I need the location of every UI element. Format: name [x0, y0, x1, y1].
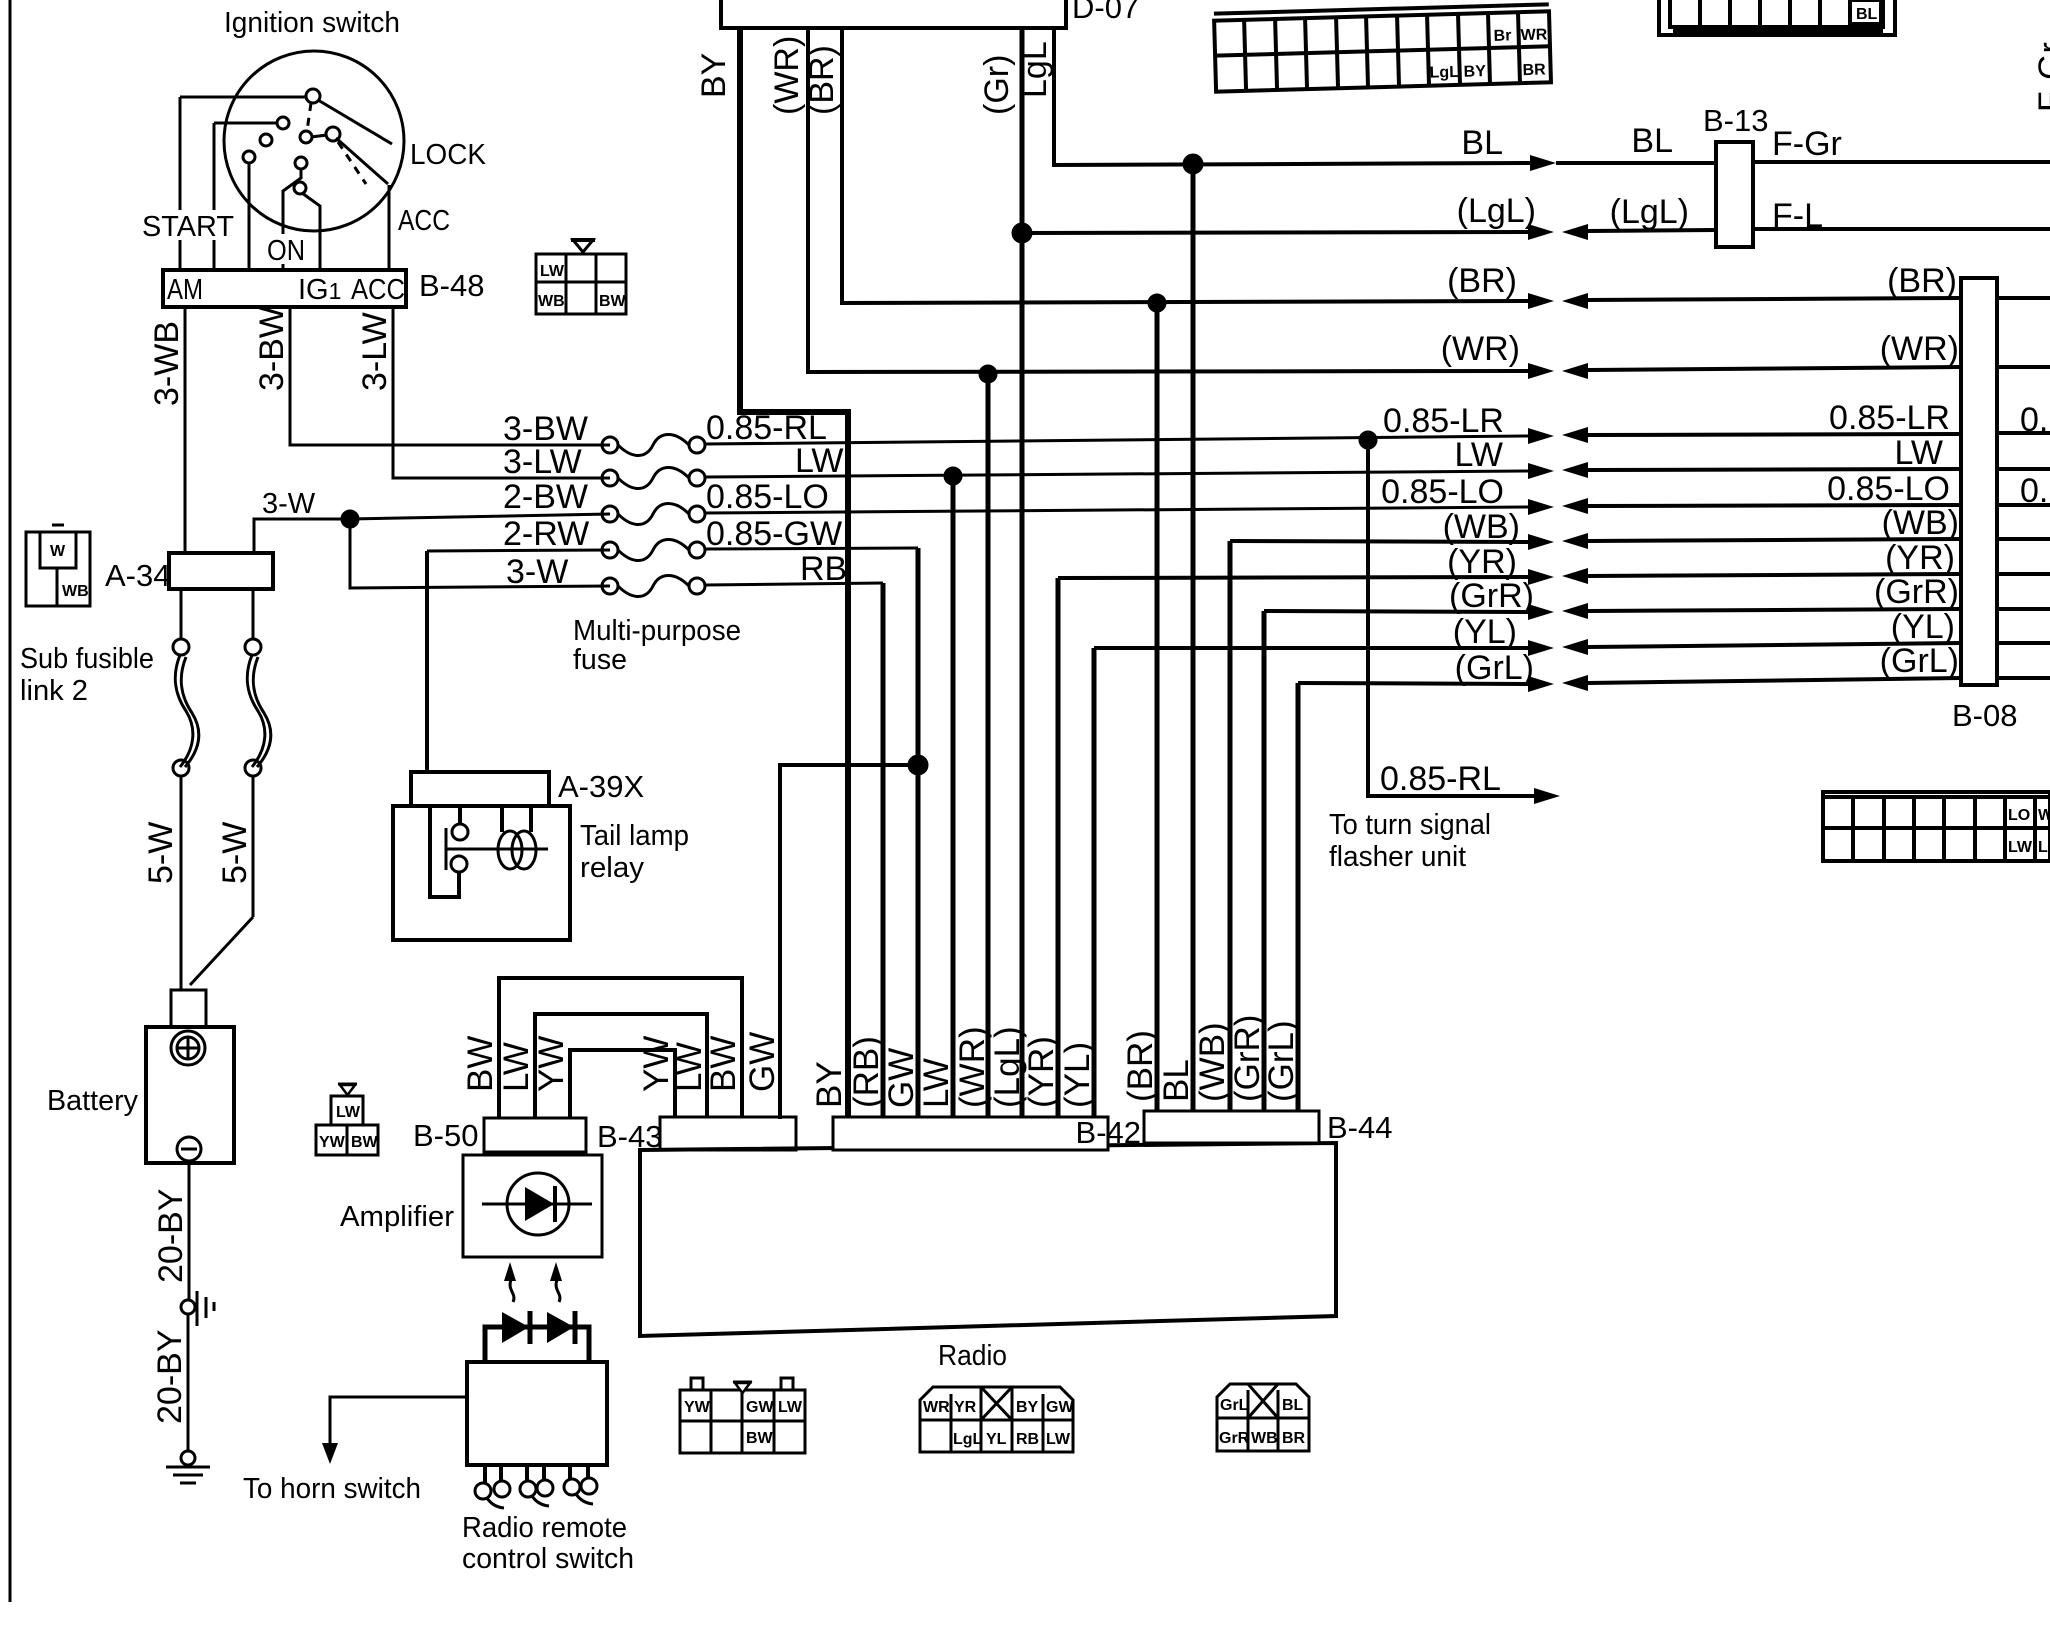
svg-text:(BR): (BR): [1121, 1030, 1160, 1102]
svg-text:ACC: ACC: [398, 205, 450, 237]
svg-text:Battery: Battery: [47, 1085, 138, 1117]
svg-text:(WB): (WB): [1443, 508, 1520, 546]
svg-text:To turn signal: To turn signal: [1329, 809, 1491, 841]
svg-text:LW: LW: [540, 263, 565, 280]
svg-text:W: W: [2038, 807, 2050, 824]
wire 3-LW from ACC: [393, 307, 610, 478]
wire branch to RB row: [350, 519, 610, 588]
svg-text:(BR): (BR): [1887, 262, 1957, 300]
svg-text:(YL): (YL): [1058, 1042, 1097, 1108]
svg-text:To horn switch: To horn switch: [243, 1473, 421, 1505]
connector B-48: [163, 270, 406, 307]
relay contact feed: [430, 806, 459, 897]
arrow to horn switch: [322, 1443, 338, 1464]
svg-text:(GrR): (GrR): [1449, 577, 1534, 615]
svg-text:Br: Br: [1493, 27, 1511, 44]
fuse row 3: [350, 514, 610, 519]
svg-text:WR: WR: [1520, 26, 1548, 44]
svg-text:Sub fusible: Sub fusible: [20, 643, 154, 675]
svg-text:fuse: fuse: [573, 644, 627, 676]
svg-text:(RB): (RB): [847, 1036, 886, 1108]
fuse row 1: [602, 437, 618, 453]
radio remote control switch box: [467, 1362, 607, 1465]
svg-text:B-44: B-44: [1327, 1110, 1392, 1145]
svg-text:LgL: LgL: [953, 1431, 983, 1448]
svg-text:WB: WB: [1251, 1430, 1278, 1447]
svg-text:D-07: D-07: [1072, 0, 1139, 25]
svg-text:LgL: LgL: [1429, 64, 1459, 82]
connector B-08: [1961, 278, 1997, 685]
junction BL row: [1184, 155, 1202, 173]
fuse row 2: [602, 470, 618, 486]
connector icon near amplifier: [316, 1084, 379, 1155]
svg-text:ON: ON: [267, 235, 305, 267]
connector A-39X: [411, 772, 549, 806]
contact pivot: [306, 89, 320, 103]
switch contact circles: [475, 1483, 491, 1499]
svg-text:Ignition switch: Ignition switch: [224, 7, 400, 39]
junction BR row: [1149, 295, 1165, 311]
connector B-44: [1144, 1111, 1319, 1143]
svg-text:(WR): (WR): [953, 1026, 992, 1108]
svg-text:3-W: 3-W: [506, 553, 568, 591]
svg-text:A-34: A-34: [105, 558, 170, 593]
svg-text:F-Gr: F-Gr: [1772, 125, 1842, 163]
row WR arrows: [1528, 363, 1554, 379]
connector grid B-42 icon: [920, 1387, 1074, 1452]
svg-text:(GrL): (GrL): [1880, 642, 1959, 680]
wire 20-BY: [188, 1161, 191, 1300]
svg-text:AM: AM: [167, 274, 203, 306]
svg-text:F-Gr: F-Gr: [2032, 42, 2050, 112]
relay contact upper: [452, 824, 468, 840]
relay armature bar: [445, 828, 448, 870]
svg-text:LW: LW: [1046, 1431, 1071, 1448]
contact b: [260, 134, 272, 146]
svg-text:(GrR): (GrR): [1874, 573, 1959, 611]
relay contact lower: [451, 856, 467, 872]
svg-text:RB: RB: [1016, 1431, 1039, 1448]
svg-text:(BR): (BR): [803, 45, 841, 115]
svg-text:LW: LW: [795, 442, 843, 480]
svg-text:0.85-LR: 0.85-LR: [1829, 399, 1950, 437]
svg-text:BR: BR: [1282, 1430, 1306, 1447]
svg-text:BW: BW: [704, 1036, 743, 1092]
svg-text:BW: BW: [746, 1430, 774, 1447]
connector grid top-left: [1214, 4, 1551, 91]
battery terminal box: [171, 990, 206, 1027]
svg-text:GW: GW: [1046, 1399, 1074, 1416]
wire 0.85-RL to turn signal flasher: [1368, 440, 1534, 796]
switch actuator tails: [487, 1498, 504, 1508]
connector icon near B-48: [536, 240, 627, 314]
wire to tail lamp relay: [425, 551, 429, 772]
svg-text:2-RW: 2-RW: [503, 515, 589, 553]
svg-text:(BR): (BR): [1447, 262, 1517, 300]
page border line: [9, 0, 12, 1602]
diode D1: [502, 1312, 529, 1343]
svg-text:Multi-purpose: Multi-purpose: [573, 615, 741, 647]
dashed line contact to ACC: [338, 142, 366, 184]
connector B-42: [833, 1117, 1108, 1150]
wire BY from D-07: [740, 28, 848, 1121]
svg-text:flasher unit: flasher unit: [1329, 841, 1466, 873]
diode D2: [547, 1312, 574, 1343]
wire 20-BY lower: [187, 1314, 190, 1451]
svg-text:2-BW: 2-BW: [503, 478, 588, 516]
connector B-43: [660, 1117, 796, 1150]
svg-text:(WB): (WB): [1193, 1022, 1232, 1102]
wire LW vertical to B-42: [951, 476, 956, 1121]
svg-text:BY: BY: [695, 53, 733, 98]
wire F-Gr: [1753, 160, 2050, 164]
wire BR vertical to B-44: [1155, 303, 1160, 1113]
wire 3-BW from IG1: [290, 307, 610, 445]
svg-text:A-39X: A-39X: [558, 769, 644, 804]
wire contact down: [248, 162, 251, 270]
switch contact bridge: [311, 135, 327, 137]
sub fusible link 1: [180, 589, 183, 640]
svg-text:BW: BW: [461, 1036, 500, 1092]
wire BL to B-13: [1556, 161, 1716, 165]
svg-text:(YL): (YL): [1453, 613, 1517, 651]
wire contact to IG1 area: [302, 193, 320, 270]
svg-text:LW: LW: [1895, 434, 1943, 472]
junction 3-W: [342, 511, 358, 527]
svg-text:LW: LW: [2008, 839, 2033, 856]
connector A-34: [169, 553, 273, 589]
ground bottom bars: [166, 1466, 210, 1469]
wire 3-W from A-34 to fuse row: [254, 519, 350, 553]
svg-text:relay: relay: [580, 852, 645, 884]
svg-text:BY: BY: [1016, 1399, 1039, 1416]
connector grid B-44 icon: [1217, 1384, 1309, 1451]
svg-text:Radio: Radio: [938, 1340, 1007, 1372]
wire to horn switch: [330, 1397, 467, 1443]
svg-text:BL: BL: [1282, 1397, 1304, 1414]
wire BR right: [1588, 298, 1961, 300]
ground tap bars: [196, 1291, 199, 1326]
svg-text:(LgL): (LgL): [1457, 192, 1536, 230]
svg-text:(YR): (YR): [1885, 539, 1955, 577]
junction 0.85-LR: [1360, 432, 1376, 448]
tail lamp relay box: [393, 806, 570, 940]
svg-text:20-BY: 20-BY: [151, 1330, 189, 1425]
ground bottom circle: [181, 1451, 195, 1465]
wire (BR) from D-07: [842, 28, 1530, 303]
svg-text:BW: BW: [351, 1134, 379, 1151]
svg-text:LW: LW: [1455, 436, 1503, 474]
row WB: [1230, 541, 1530, 542]
svg-text:0.85-LO: 0.85-LO: [1827, 470, 1950, 508]
wire LR right: [1588, 434, 1961, 435]
svg-text:BY: BY: [810, 1061, 849, 1108]
battery plus terminal: [171, 1031, 205, 1065]
relay contact upper wire: [458, 806, 462, 824]
svg-text:WB: WB: [538, 293, 565, 310]
amplifier diode circle: [507, 1173, 569, 1235]
wire ON contact jog: [283, 169, 301, 270]
junction LgL row start: [1013, 224, 1031, 242]
wire 3-WB: [184, 307, 187, 553]
svg-text:0.85-LO: 0.85-LO: [1381, 473, 1504, 511]
svg-text:GW: GW: [882, 1048, 921, 1108]
svg-text:(WR): (WR): [1441, 330, 1520, 368]
svg-text:START: START: [142, 211, 234, 243]
svg-text:B-48: B-48: [419, 268, 484, 303]
wire LW right: [1588, 469, 1961, 470]
row BL arrow: [1530, 155, 1556, 171]
wire diagonal to battery: [190, 917, 253, 985]
connector icon near A-34: [26, 525, 90, 606]
svg-text:RB: RB: [800, 550, 847, 588]
svg-text:GW: GW: [746, 1399, 774, 1416]
svg-text:0.: 0.: [2020, 472, 2048, 510]
svg-text:(WB): (WB): [1882, 504, 1959, 542]
svg-text:Amplifier: Amplifier: [340, 1201, 454, 1233]
svg-text:BL: BL: [1856, 6, 1878, 23]
ground tap circle: [181, 1300, 195, 1314]
svg-text:B-42: B-42: [1076, 1115, 1141, 1150]
amplifier box: [463, 1155, 602, 1257]
svg-text:BL: BL: [1157, 1059, 1196, 1102]
battery body: [146, 1027, 234, 1163]
svg-text:LW: LW: [497, 1042, 536, 1092]
svg-text:(YL): (YL): [1891, 608, 1955, 646]
svg-text:LW: LW: [917, 1058, 956, 1108]
svg-text:L: L: [2038, 839, 2048, 856]
row GrR: [1264, 611, 1530, 612]
relay coil wires: [500, 806, 504, 832]
label START: [140, 210, 236, 240]
svg-text:(GrL): (GrL): [1455, 649, 1534, 687]
svg-text:3-LW: 3-LW: [503, 443, 582, 481]
svg-text:(YR): (YR): [1447, 543, 1517, 581]
row GrL: [1298, 683, 1530, 684]
wire GW branch to B-43: [780, 765, 918, 1119]
ignition switch body circle: [224, 51, 404, 231]
contact e: [326, 127, 340, 141]
svg-text:Radio remote: Radio remote: [462, 1512, 627, 1544]
svg-text:ACC: ACC: [351, 274, 405, 306]
contact c: [243, 151, 255, 163]
junction GW branch: [909, 756, 927, 774]
svg-text:(LgL): (LgL): [1610, 193, 1689, 231]
connector grid B-43 icon: [680, 1378, 805, 1453]
relay coil: [498, 831, 522, 869]
switch contact line ACC: [336, 138, 388, 184]
svg-text:3-BW: 3-BW: [253, 306, 291, 391]
connector D-07: [721, 0, 1066, 28]
wire LgL from D-07 to BL row: [1054, 28, 1530, 165]
wire START pin to pivot: [180, 96, 306, 99]
svg-text:F-L: F-L: [1772, 197, 1823, 235]
svg-text:5-W: 5-W: [216, 822, 254, 884]
svg-text:BR: BR: [1522, 61, 1546, 79]
svg-text:WB: WB: [62, 583, 89, 600]
svg-text:YR: YR: [954, 1399, 977, 1416]
svg-text:WR: WR: [923, 1399, 950, 1416]
svg-text:BL: BL: [1461, 124, 1503, 162]
label ON: [266, 234, 306, 264]
svg-text:W: W: [50, 543, 66, 560]
contact f: [295, 157, 307, 169]
svg-text:GrR: GrR: [1219, 1430, 1250, 1447]
fuse row 4: [427, 550, 610, 551]
svg-text:LO: LO: [2008, 807, 2030, 824]
svg-text:(YR): (YR): [1022, 1036, 1061, 1108]
row BR arrows: [1528, 293, 1554, 309]
switch pins: [483, 1465, 487, 1483]
junction LW: [945, 468, 961, 484]
svg-text:5-W: 5-W: [142, 822, 180, 884]
svg-text:B-50: B-50: [413, 1118, 478, 1153]
connector grid bottom-right: [1823, 792, 2050, 861]
svg-text:LW: LW: [336, 1104, 361, 1121]
wire LO right: [1588, 505, 1961, 506]
svg-text:0.: 0.: [2020, 401, 2048, 439]
wire BL vertical to B-44: [1191, 164, 1196, 1113]
svg-text:BW: BW: [599, 293, 627, 310]
connector B-13: [1716, 142, 1753, 247]
svg-text:LOCK: LOCK: [410, 139, 487, 171]
dashed line pivot to contact: [307, 103, 311, 131]
wire ACC: [388, 185, 391, 270]
row LW arrows: [1528, 463, 1554, 479]
svg-text:0.85-GW: 0.85-GW: [706, 515, 842, 553]
contact a: [277, 117, 289, 129]
wire loop LW B-50 to B-43: [535, 1014, 707, 1118]
wire contact to left pin: [214, 122, 278, 125]
wavy arrow up 2: [556, 1280, 560, 1302]
svg-text:3-W: 3-W: [262, 488, 316, 520]
svg-text:YW: YW: [532, 1036, 571, 1092]
wire (LgL) row: [1022, 232, 1530, 233]
contact g: [294, 182, 306, 194]
wire GW vertical to B-42: [916, 548, 921, 1121]
svg-text:(GrL): (GrL): [1262, 1020, 1301, 1102]
wire F-L: [1753, 227, 2050, 231]
svg-text:BL: BL: [1631, 122, 1673, 160]
connector grid top-right: [1659, 0, 1895, 35]
svg-text:YL: YL: [986, 1431, 1007, 1448]
fuse row 5: [602, 578, 618, 594]
wire LgL to B-13: [1588, 230, 1716, 231]
row LgL arrows: [1528, 224, 1554, 240]
svg-text:link 2: link 2: [20, 675, 88, 707]
row YR: [1058, 577, 1530, 578]
svg-text:3-WB: 3-WB: [148, 321, 186, 406]
svg-text:YW: YW: [684, 1399, 711, 1416]
wire loop BW B-50 to B-43: [499, 978, 742, 1118]
svg-text:BY: BY: [1463, 63, 1486, 81]
row YL: [1094, 646, 1530, 650]
wire WR right: [1588, 367, 1961, 370]
sub fusible link 2: [252, 589, 255, 640]
svg-text:LW: LW: [778, 1399, 803, 1416]
svg-text:(WR): (WR): [1880, 330, 1959, 368]
radio box: [640, 1143, 1336, 1336]
svg-text:(Gr): (Gr): [978, 55, 1016, 115]
svg-text:YW: YW: [319, 1134, 346, 1151]
switch pointer line LOCK: [318, 100, 392, 144]
diode bridge: [485, 1327, 589, 1361]
svg-text:LgL: LgL: [1016, 41, 1054, 98]
svg-text:B-08: B-08: [1952, 698, 2017, 733]
row LR arrows: [1528, 428, 1554, 444]
wire RB vertical to B-42: [881, 583, 886, 1121]
wire (Gr) from D-07 to B-42: [1020, 28, 1025, 1121]
svg-text:B-13: B-13: [1703, 103, 1768, 138]
connector B-50: [484, 1118, 586, 1152]
row LO arrows: [1528, 499, 1554, 515]
contact d: [300, 131, 312, 143]
svg-text:0.85-LO: 0.85-LO: [706, 478, 829, 516]
svg-text:3-LW: 3-LW: [356, 312, 394, 391]
svg-text:20-BY: 20-BY: [152, 1189, 190, 1284]
wavy arrow up 1: [510, 1280, 514, 1302]
junction WR: [980, 366, 996, 382]
wire loop YW B-50 to B-43: [570, 1050, 675, 1118]
svg-text:(WR): (WR): [768, 36, 806, 115]
svg-text:0.85-RL: 0.85-RL: [1380, 760, 1501, 798]
svg-text:GW: GW: [743, 1032, 782, 1092]
svg-text:0.85-LR: 0.85-LR: [1383, 402, 1504, 440]
battery minus terminal: [177, 1137, 201, 1161]
svg-text:IG1: IG1: [298, 274, 341, 306]
svg-text:Tail lamp: Tail lamp: [580, 820, 689, 852]
svg-text:GrL: GrL: [1220, 1397, 1249, 1414]
svg-text:control switch: control switch: [462, 1543, 634, 1575]
wire (WR) from D-07: [808, 28, 1530, 372]
wire WR vertical to B-42: [986, 373, 991, 1121]
